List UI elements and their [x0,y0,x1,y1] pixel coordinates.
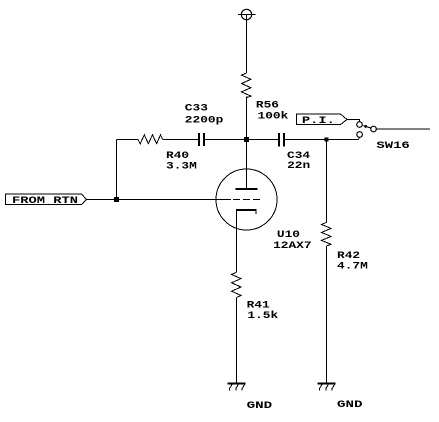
svg-text:22n: 22n [287,160,310,172]
wire C34 node to switch [359,137,360,140]
svg-text:C33: C33 [185,102,208,114]
wire power symbol to R56 [246,15,248,74]
capacitor C34 [279,133,284,147]
U10 plate [236,188,258,190]
wire R56 to plate node [246,97,248,138]
wire grid node to tube grid [119,199,231,201]
capacitor C33 [199,133,204,146]
svg-text:12AX7: 12AX7 [273,240,312,252]
svg-text:100k: 100k [258,111,289,123]
wire P.I. to switch throw [347,120,360,122]
wire cathode to R41 [236,210,238,272]
svg-text:4.7M: 4.7M [337,260,368,272]
ground right [318,384,336,391]
svg-text:3.3M: 3.3M [166,161,197,173]
SW16 throw contact (C34 node) [357,132,363,138]
wire R40 to C33 [163,139,198,141]
node plate junction [244,137,249,142]
triode U10 envelope [216,169,277,230]
U10 grid (dashed) [233,199,260,201]
resistor R42 [322,222,332,246]
wire R42 to ground [326,246,328,383]
svg-text:P.I.: P.I. [302,115,335,127]
wire FROM RTN to grid node [87,199,115,201]
flag P.I. [297,114,348,127]
svg-text:R56: R56 [256,99,279,111]
ground left [228,384,246,391]
wire C33 to plate node [205,139,244,141]
wire corner to R40 [117,139,139,141]
node R42 junction [325,138,329,142]
wire R41 to ground [236,298,238,383]
svg-text:GND: GND [337,399,363,411]
wire plate node to tube plate [246,142,248,188]
flag FROM RTN [6,194,87,207]
SW16 throw contact (P.I.) [357,122,363,128]
SW16 common contact [371,126,377,132]
wire junction down to R42 [326,142,328,223]
resistor R56 [242,73,252,98]
power symbol (plate supply) [238,9,256,19]
svg-text:SW16: SW16 [376,140,409,152]
resistor R40 [138,135,163,144]
svg-text:1.5k: 1.5k [247,310,278,322]
wire grid node up to R40 [116,140,118,200]
svg-text:GND: GND [247,400,273,412]
SW16 arm [367,127,371,128]
SW16 arm arrowhead [363,125,367,128]
node grid junction [114,197,119,202]
wire switch common out [376,128,430,130]
svg-text:FROM RTN: FROM RTN [12,195,78,207]
U10 cathode [236,210,257,214]
resistor R41 [232,272,242,297]
svg-text:2200p: 2200p [185,114,224,126]
wire C34 to switch node [285,139,359,141]
switch SW16 [357,122,377,138]
wire plate node to C34 [249,139,278,141]
